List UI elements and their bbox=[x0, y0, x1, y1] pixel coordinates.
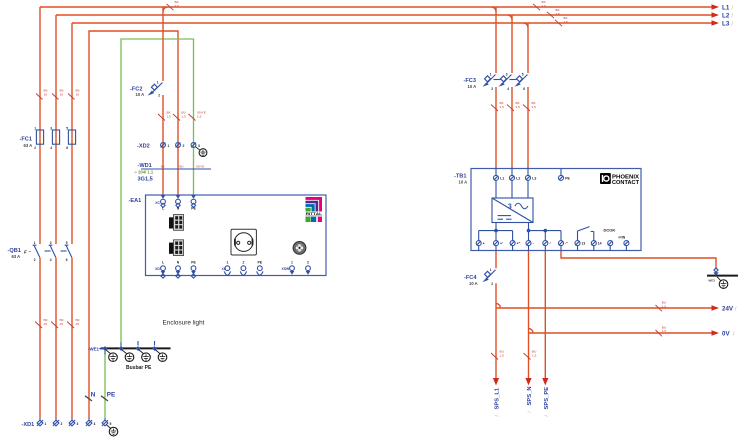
fuse FC1 label bbox=[20, 137, 33, 148]
TB1 converter symbol bbox=[492, 180, 533, 222]
svg-text:/: / bbox=[544, 415, 549, 417]
svg-text:PE: PE bbox=[191, 261, 196, 265]
svg-text:1: 1 bbox=[490, 73, 492, 77]
junction dot plus bbox=[494, 229, 498, 233]
wire FC2 drop upper bbox=[162, 7, 164, 81]
svg-text:2: 2 bbox=[183, 144, 185, 148]
wire label mark SPS_L1 bbox=[491, 350, 504, 360]
TB1 pin PE bbox=[559, 169, 571, 181]
cable WD1 labels bbox=[135, 163, 154, 182]
junction arc FC2 at L1 bbox=[163, 7, 168, 12]
svg-text:3: 3 bbox=[506, 73, 508, 77]
earth symbol bus 2 bbox=[122, 350, 134, 362]
EA1 pin XC:N bbox=[176, 195, 181, 210]
TB1 plus bus bbox=[479, 230, 513, 232]
FC3 linkage b bbox=[510, 79, 517, 81]
breaker FC4 label bbox=[464, 275, 478, 286]
svg-text:N: N bbox=[91, 391, 96, 398]
wire label mark L3 top bbox=[68, 88, 81, 99]
svg-text:16: 16 bbox=[76, 92, 80, 96]
svg-text:16: 16 bbox=[44, 322, 48, 326]
svg-text:-XD2: -XD2 bbox=[137, 144, 150, 150]
TB1 label bbox=[454, 173, 467, 184]
svg-text:-QB1: -QB1 bbox=[8, 248, 21, 254]
svg-text:1: 1 bbox=[157, 81, 159, 85]
wire label mark 0V bbox=[656, 325, 667, 336]
svg-text:16: 16 bbox=[76, 322, 80, 326]
junction arc FC3 pole3 bbox=[524, 23, 529, 28]
svg-text:-EA1: -EA1 bbox=[129, 198, 142, 204]
svg-text:BU: BU bbox=[180, 165, 184, 169]
wire PE green to XD1 bbox=[104, 354, 106, 419]
svg-text:2: 2 bbox=[34, 146, 36, 150]
svg-text:1,5: 1,5 bbox=[516, 105, 521, 109]
svg-text:2,5: 2,5 bbox=[564, 20, 569, 24]
Rittal logo bbox=[306, 197, 323, 222]
wire FC4 to 24V node bbox=[495, 283, 497, 378]
svg-text:4: 4 bbox=[50, 146, 52, 150]
arrow SPS_L1 bbox=[493, 378, 499, 385]
svg-text:I<IN: I<IN bbox=[619, 236, 626, 240]
EA1 pin XS:1 bbox=[221, 261, 230, 276]
svg-text:1: 1 bbox=[45, 422, 47, 426]
svg-text:-′: -′ bbox=[549, 242, 551, 246]
EA1 pin XD:N bbox=[176, 261, 181, 279]
svg-text:BK: BK bbox=[161, 165, 165, 169]
svg-text:PE: PE bbox=[565, 177, 570, 181]
svg-text:63 A: 63 A bbox=[12, 254, 21, 259]
TB1 pin minus bbox=[526, 231, 534, 251]
terminal XD1:1 bbox=[37, 418, 47, 426]
svg-text:3G1,5: 3G1,5 bbox=[138, 176, 153, 182]
wire label mark L2 bottom bbox=[51, 318, 65, 328]
svg-text:3: 3 bbox=[198, 144, 200, 148]
EA1 pin XSW:2 bbox=[306, 261, 311, 275]
wire 0V feeder bbox=[529, 332, 712, 334]
terminal XD2:2 bbox=[176, 143, 185, 148]
svg-text:3: 3 bbox=[77, 422, 79, 426]
earth symbol bus 4 bbox=[155, 350, 167, 362]
svg-text:5: 5 bbox=[110, 422, 112, 426]
svg-text:2: 2 bbox=[34, 258, 36, 262]
switch QB1 pole1 bbox=[33, 241, 40, 262]
svg-text:+′: +′ bbox=[500, 242, 503, 246]
svg-text:/: / bbox=[732, 22, 734, 28]
N wire mark bbox=[85, 396, 92, 401]
svg-text:63 A: 63 A bbox=[24, 143, 33, 148]
busbar junction 1 bbox=[99, 346, 108, 354]
wire L1 rail bbox=[40, 6, 712, 8]
breaker FC3 pole1 bbox=[483, 73, 496, 91]
wire functional earth from TB1 bbox=[561, 251, 716, 270]
svg-text:24V: 24V bbox=[722, 305, 734, 312]
svg-text:L: L bbox=[162, 207, 164, 211]
switch QB1 label bbox=[8, 248, 32, 259]
svg-text:/: / bbox=[735, 306, 737, 312]
svg-text:1: 1 bbox=[34, 127, 36, 131]
svg-text:1,5: 1,5 bbox=[167, 115, 172, 119]
fuse FC1 pole2 bbox=[50, 127, 59, 150]
svg-text:6: 6 bbox=[66, 258, 68, 262]
PE wire mark bbox=[101, 396, 108, 401]
svg-text:GNYE: GNYE bbox=[196, 165, 204, 169]
EA1 pin XSW:1 bbox=[281, 261, 294, 275]
wire label mark L1 bottom bbox=[35, 318, 49, 328]
breaker FC3 label bbox=[464, 78, 477, 89]
breaker FC2 label bbox=[130, 86, 144, 97]
svg-text:2,5: 2,5 bbox=[556, 12, 561, 16]
busbar junction 2 bbox=[119, 343, 124, 351]
svg-text:4: 4 bbox=[50, 258, 52, 262]
cable WD1 core marks bbox=[161, 165, 204, 169]
wire FC3 pole3 drop bbox=[527, 23, 529, 73]
TB1 pin plus bbox=[476, 231, 485, 251]
svg-text:CONTACT: CONTACT bbox=[612, 180, 639, 186]
wire FC3 pole1 drop bbox=[495, 7, 497, 73]
svg-text:Busbar PE: Busbar PE bbox=[126, 365, 152, 371]
svg-text:DCOK: DCOK bbox=[604, 228, 616, 233]
svg-text:1,5: 1,5 bbox=[500, 105, 505, 109]
earth symbol bus 1 bbox=[106, 350, 118, 362]
svg-text:10 A: 10 A bbox=[136, 92, 145, 97]
svg-text:1,5: 1,5 bbox=[662, 329, 667, 333]
wire N bbox=[89, 31, 178, 418]
wire label mark N drop bbox=[173, 111, 186, 121]
svg-text:1,5: 1,5 bbox=[197, 115, 202, 119]
svg-text:/: / bbox=[527, 411, 532, 413]
svg-text:1: 1 bbox=[34, 241, 36, 245]
svg-text:2: 2 bbox=[307, 261, 309, 265]
svg-text:SPS_PE: SPS_PE bbox=[544, 387, 550, 410]
FC3 linkage a bbox=[494, 79, 501, 81]
svg-text:2: 2 bbox=[491, 87, 493, 91]
svg-text:~: ~ bbox=[29, 249, 32, 254]
fuse FC1 pole1 bbox=[34, 127, 43, 150]
svg-text:10 A: 10 A bbox=[469, 281, 478, 286]
wire label mark PE drop bbox=[189, 111, 206, 121]
wire label mark L1 top bbox=[36, 88, 49, 99]
svg-text:XSW: XSW bbox=[281, 267, 290, 271]
wire L1 vertical lower bbox=[39, 258, 41, 418]
svg-text:L: L bbox=[162, 261, 164, 265]
wire FC3 pole3 to TB1 bbox=[527, 87, 529, 169]
TB1 pin minus1 bbox=[543, 231, 552, 251]
arrow 24V bbox=[712, 305, 720, 311]
svg-text:L2: L2 bbox=[516, 177, 520, 181]
arrow L1 bbox=[712, 4, 720, 10]
junction arc 24V branch bbox=[496, 304, 501, 309]
wire 24V feeder bbox=[496, 307, 712, 309]
TB1 pin 13 bbox=[575, 241, 585, 251]
svg-text:1: 1 bbox=[291, 261, 293, 265]
svg-text:-TB1: -TB1 bbox=[454, 173, 466, 179]
EA1 pin XC:PE bbox=[191, 195, 196, 210]
earth busbar right bbox=[707, 275, 738, 277]
breaker FC3 pole2 bbox=[499, 73, 512, 91]
svg-text:N: N bbox=[177, 207, 180, 211]
svg-text:2: 2 bbox=[61, 422, 63, 426]
earth symbol at XD1:5 bbox=[107, 425, 118, 436]
connector block photo 1 bbox=[169, 215, 184, 231]
junction arc FC3 pole1 bbox=[492, 7, 497, 12]
TB1 pin L2 bbox=[510, 169, 521, 181]
svg-text:-: - bbox=[533, 242, 534, 246]
svg-text:2: 2 bbox=[242, 261, 244, 265]
svg-text:L1: L1 bbox=[500, 177, 504, 181]
svg-text:XC: XC bbox=[155, 201, 160, 205]
arrow SPS_PE bbox=[542, 378, 548, 385]
svg-text:13: 13 bbox=[582, 242, 586, 246]
wire L2 vertical lower bbox=[55, 258, 57, 418]
svg-text:SPS_N: SPS_N bbox=[527, 386, 533, 405]
linkage dash QB1 b bbox=[61, 250, 67, 252]
svg-text:/: / bbox=[495, 415, 500, 417]
terminal XD2:3 bbox=[191, 143, 200, 148]
wire minus2 out to SPS_PE bbox=[544, 251, 546, 379]
terminal XD1:4 bbox=[86, 418, 96, 426]
wire FC3 pole1 to TB1 bbox=[495, 87, 497, 169]
enclosure EA1 box bbox=[146, 195, 327, 276]
svg-text:3: 3 bbox=[50, 127, 52, 131]
breaker FC2 bbox=[148, 81, 163, 98]
TB1 pin plus1 bbox=[494, 231, 503, 251]
wire label mark FC2 out bbox=[158, 111, 172, 121]
busbar WE1 bbox=[101, 347, 171, 349]
earth bar connection bbox=[713, 268, 718, 276]
busbar junction 3 bbox=[136, 341, 141, 351]
EA1 pin XS:PE bbox=[257, 261, 263, 276]
wire minus out to SPS_N bbox=[528, 251, 530, 379]
arrow 0V bbox=[712, 330, 720, 336]
svg-text:1,5: 1,5 bbox=[500, 354, 505, 358]
socket outlet drawing bbox=[231, 229, 256, 255]
junction dot minus1 bbox=[527, 229, 531, 233]
wire L3 rail bbox=[72, 22, 712, 24]
svg-text:-WE1: -WE1 bbox=[88, 347, 100, 352]
terminal XD1:3 bbox=[69, 418, 79, 426]
TB1 dc output link minus bbox=[528, 223, 530, 231]
svg-text:2: 2 bbox=[491, 282, 493, 286]
svg-text:PE: PE bbox=[258, 261, 263, 265]
wire label mark SPS_N bbox=[524, 350, 537, 360]
EA1 pin XC:L bbox=[155, 195, 165, 210]
svg-text:5: 5 bbox=[66, 241, 68, 245]
wire TB1 plus out to FC4 bbox=[495, 251, 497, 269]
svg-text:1: 1 bbox=[168, 144, 170, 148]
junction arc FC3 pole2 bbox=[508, 15, 513, 20]
arrow L3 bbox=[712, 20, 720, 26]
svg-text:16: 16 bbox=[60, 92, 64, 96]
TB1 pin L1 bbox=[494, 169, 505, 181]
svg-text:1,5: 1,5 bbox=[532, 354, 537, 358]
wire label mark FC3 out3 bbox=[523, 101, 537, 111]
wire L2 rail bbox=[56, 14, 712, 16]
power supply TB1 box bbox=[471, 169, 641, 251]
TB1 pin minus2 bbox=[559, 231, 569, 251]
wire label mark L1 after FC2 junction bbox=[167, 0, 180, 10]
wire label mark L2 top bbox=[52, 88, 65, 99]
svg-text:1,5: 1,5 bbox=[182, 115, 187, 119]
svg-text:4: 4 bbox=[507, 87, 509, 91]
wire FC3 pole2 to TB1 bbox=[511, 87, 513, 169]
wire L2 vertical upper bbox=[55, 15, 57, 244]
svg-text:-″: -″ bbox=[565, 242, 568, 246]
svg-text:1,5: 1,5 bbox=[662, 304, 667, 308]
svg-text:2,5: 2,5 bbox=[175, 4, 180, 8]
cable WD1 line bbox=[141, 168, 211, 170]
svg-text:3: 3 bbox=[50, 241, 52, 245]
TB1 pin dcok bbox=[608, 241, 613, 251]
svg-text:L3: L3 bbox=[722, 21, 730, 28]
switch QB1 pole2 bbox=[49, 241, 56, 262]
TB1 pin L3 bbox=[526, 169, 537, 181]
svg-text:-WE2: -WE2 bbox=[708, 279, 716, 283]
svg-text:+: + bbox=[483, 242, 485, 246]
svg-text:/: / bbox=[732, 14, 734, 20]
TB1 pin plus2 bbox=[510, 231, 520, 251]
EA1 pin XD:L bbox=[155, 261, 165, 279]
svg-text:/: / bbox=[732, 6, 734, 12]
svg-text:16: 16 bbox=[60, 322, 64, 326]
wire label mark FC3 out1 bbox=[491, 101, 505, 111]
earth symbol bus 3 bbox=[139, 350, 151, 362]
terminal XD1:2 bbox=[53, 418, 63, 426]
svg-text:+″: +″ bbox=[517, 242, 521, 246]
TB1 pin 14 bbox=[591, 241, 601, 251]
svg-text:L3: L3 bbox=[532, 177, 536, 181]
arrow SPS_N bbox=[525, 378, 531, 385]
svg-text:L2: L2 bbox=[722, 13, 730, 20]
svg-text:1,5: 1,5 bbox=[532, 105, 537, 109]
TB1 dc output link plus bbox=[495, 223, 497, 231]
svg-text:0V: 0V bbox=[722, 331, 730, 338]
svg-text:16: 16 bbox=[44, 92, 48, 96]
Phoenix Contact logo bbox=[600, 173, 640, 186]
svg-text:1: 1 bbox=[490, 268, 492, 272]
round connector photo bbox=[293, 242, 306, 255]
arrow L2 bbox=[712, 12, 720, 18]
earth symbol right bbox=[717, 277, 728, 289]
wire label mark FC3 out2 bbox=[507, 101, 521, 111]
svg-text:1: 1 bbox=[226, 261, 228, 265]
svg-text:F: F bbox=[24, 250, 27, 255]
wire label mark L2 right bbox=[547, 8, 561, 18]
connector block photo 2 bbox=[169, 240, 184, 256]
switch QB1 pole3 bbox=[65, 241, 72, 262]
wire L3 vertical upper bbox=[71, 23, 73, 244]
wire label mark 24V bbox=[656, 301, 667, 312]
TB1 minus bus bbox=[529, 230, 562, 232]
svg-text:14: 14 bbox=[598, 242, 602, 246]
wire PE green bbox=[121, 39, 194, 343]
wire L3 vertical lower bbox=[71, 258, 73, 418]
svg-text:PE: PE bbox=[191, 207, 196, 211]
wire label mark L3 bottom bbox=[67, 318, 81, 328]
DCOK contact bbox=[578, 227, 594, 241]
svg-text:L1: L1 bbox=[722, 5, 730, 12]
svg-text:2,5: 2,5 bbox=[542, 4, 547, 8]
svg-text:3: 3 bbox=[508, 203, 512, 210]
svg-text:≡ 204/ 1.1: ≡ 204/ 1.1 bbox=[135, 170, 154, 175]
linkage dash QB1 a bbox=[45, 250, 51, 252]
svg-text:PE: PE bbox=[107, 391, 115, 398]
svg-text:RITTAL: RITTAL bbox=[306, 211, 323, 216]
svg-text:-FC1: -FC1 bbox=[20, 137, 32, 143]
svg-text:/: / bbox=[733, 332, 735, 338]
svg-text:6: 6 bbox=[66, 146, 68, 150]
svg-text:10 A: 10 A bbox=[468, 84, 477, 89]
svg-text:6: 6 bbox=[523, 87, 525, 91]
svg-text:SPS_L1: SPS_L1 bbox=[495, 387, 501, 409]
terminal XD1:5 bbox=[102, 418, 112, 426]
busbar junction 4 bbox=[152, 341, 157, 351]
svg-text:5: 5 bbox=[522, 73, 524, 77]
svg-text:-XD1: -XD1 bbox=[22, 422, 35, 428]
wire FC3 pole2 drop bbox=[511, 15, 513, 73]
svg-text:2: 2 bbox=[158, 94, 160, 98]
junction arc 0V branch bbox=[529, 329, 534, 334]
junction dot minus2 bbox=[544, 229, 548, 233]
breaker FC4 bbox=[483, 268, 496, 286]
svg-text:4: 4 bbox=[94, 422, 96, 426]
svg-text:5: 5 bbox=[66, 127, 68, 131]
wire label mark L1 right bbox=[533, 0, 547, 10]
svg-text:N: N bbox=[177, 261, 180, 265]
svg-text:Enclosure light: Enclosure light bbox=[163, 319, 205, 326]
wire label mark L3 right bbox=[555, 16, 569, 26]
EA1 pin XS:2 bbox=[240, 261, 246, 276]
svg-text:XD: XD bbox=[155, 267, 160, 271]
wire L1 vertical upper bbox=[39, 7, 41, 244]
svg-text:-WD1: -WD1 bbox=[138, 163, 152, 169]
EA1 pin XD:PE bbox=[191, 261, 196, 279]
TB1 pin iin bbox=[624, 241, 629, 251]
breaker FC3 pole3 bbox=[515, 73, 528, 91]
terminal XD2:1 bbox=[161, 143, 170, 148]
wire FC2 drop lower to EA1 bbox=[162, 95, 164, 195]
earth symbol at XD2:3 bbox=[196, 147, 207, 157]
svg-text:10 A: 10 A bbox=[459, 180, 468, 185]
fuse FC1 pole3 bbox=[66, 127, 75, 150]
